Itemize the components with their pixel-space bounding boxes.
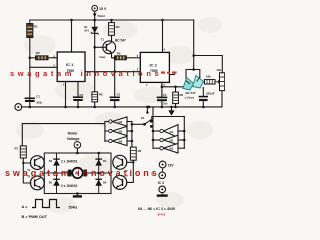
transistor T1 (103, 41, 116, 54)
paper mottle (16, 17, 222, 213)
wire left vertical bus (29, 38, 31, 107)
wire top supply rail (30, 19, 194, 21)
wire N2 in stub (178, 139, 184, 141)
wire switch throw riser (152, 117, 185, 122)
svg-text:IC 1: IC 1 (66, 62, 74, 67)
current arrow 50mA (93, 13, 97, 17)
wire N3 out stub (153, 147, 160, 149)
svg-text:50Hz: 50Hz (69, 206, 78, 210)
bridge frame (44, 153, 111, 194)
wire T1 base stub (95, 46, 107, 48)
wire switch feed (132, 123, 145, 125)
wire N4-N6 output bus (104, 122, 106, 142)
wire IC1 pin2 lead (30, 66, 57, 68)
svg-text:10k: 10k (206, 75, 211, 79)
svg-text:100u: 100u (36, 101, 42, 105)
transistor T3 (113, 175, 127, 189)
wire R6 bottom lead (94, 102, 96, 107)
wire pot bottom lead (221, 91, 223, 107)
wire IC2 pin5 lead (161, 82, 163, 97)
svg-text:10k: 10k (216, 68, 221, 72)
svg-text:Imax: Imax (100, 55, 106, 59)
diode D4 top-right (95, 159, 102, 166)
svg-text:15V: 15V (168, 164, 175, 168)
diode D3 top-left (53, 159, 60, 166)
svg-text:Voltage: Voltage (67, 137, 80, 141)
svg-text:C1: C1 (36, 95, 40, 99)
transistor pair BC547 highlighted (183, 76, 204, 91)
resistor R10 (20, 146, 26, 158)
svg-text:2 x 1N4001: 2 x 1N4001 (61, 160, 78, 164)
svg-text:S1: S1 (141, 116, 145, 120)
wire N1 out stub (153, 130, 160, 132)
inverter N1 (160, 125, 178, 138)
op-amp IC1 box (57, 52, 85, 82)
wire switch gnd stub (146, 107, 148, 112)
wire left base drive (23, 158, 31, 183)
inverter N4 (109, 117, 127, 126)
resistor R8 (173, 92, 179, 104)
svg-text:D4: D4 (103, 159, 107, 163)
resistor 10k (204, 80, 215, 84)
svg-text:C4: C4 (163, 93, 167, 97)
wire N4 in stub (127, 121, 132, 123)
wire IC2 out stub (170, 74, 175, 76)
svg-text:R4: R4 (116, 25, 120, 29)
wire R9 to bases (127, 160, 133, 182)
potentiometer 10k (220, 73, 225, 91)
inverter N6 (109, 136, 127, 145)
wire N3 in stub (178, 147, 184, 149)
switch S1 arm (145, 120, 152, 125)
wire R8 stubs (175, 87, 177, 107)
svg-text:BC 547: BC 547 (186, 91, 197, 95)
capacitor C2 (73, 97, 83, 100)
wire motor row (44, 172, 111, 174)
supply terminal 15V right (159, 161, 166, 172)
wire collector loop (186, 70, 200, 81)
svg-text:C3: C3 (117, 93, 121, 97)
earth symbol (168, 110, 174, 115)
wire right feed corner (193, 20, 195, 70)
transistor T5 (30, 176, 44, 190)
inverter N3 (160, 143, 178, 153)
inverter N2 (160, 135, 178, 145)
motor M (68, 168, 87, 178)
wire N2 out stub (153, 139, 160, 141)
wire R2 left lead (30, 57, 36, 59)
wire N5 in stub (127, 130, 132, 132)
wire R5 right lead (126, 57, 140, 59)
svg-text:N6: N6 (119, 140, 123, 144)
svg-text:15 V: 15 V (99, 7, 107, 11)
wire C4 ground lead (161, 101, 163, 107)
zener diode D1 (91, 27, 98, 35)
resistor R2 (36, 56, 49, 60)
svg-text:N1: N1 (170, 130, 174, 134)
IC3 vdd terminal (159, 172, 166, 179)
watermark band 1 tail dashes (161, 72, 177, 74)
svg-text:R7: R7 (15, 147, 19, 151)
wire N4 out stub (105, 121, 109, 123)
wire pot top feed (194, 56, 223, 73)
svg-text:220uF: 220uF (206, 92, 215, 96)
svg-text:T1: T1 (101, 38, 105, 42)
wire timing node vertical (114, 59, 116, 96)
capacitor C4 (157, 97, 168, 100)
wire N4-N6 input bus (131, 122, 133, 148)
svg-text:BC 547: BC 547 (115, 39, 126, 43)
wire right diode column (98, 153, 100, 194)
svg-text:50mA: 50mA (98, 14, 106, 18)
resistor R4 (109, 23, 115, 36)
pot wiper arrow (215, 80, 221, 84)
wire left driver feed (22, 124, 105, 146)
svg-text:R1: R1 (34, 25, 38, 29)
wire T1 emitter lead (112, 53, 115, 58)
bridge ground (73, 194, 82, 198)
svg-text:R6: R6 (99, 92, 103, 96)
svg-text:N5: N5 (119, 130, 123, 134)
svg-text:N4: N4 (119, 120, 123, 124)
transistor T2 (113, 155, 127, 169)
wire N6 in stub (127, 140, 132, 142)
left terminal (15, 104, 22, 111)
wire motor voltage lead (76, 148, 78, 153)
diode D6 bottom-right (95, 179, 102, 186)
inverter N5 (109, 126, 127, 135)
svg-text:x 2nos: x 2nos (185, 96, 195, 100)
svg-text:R2: R2 (36, 51, 40, 55)
capacitor C1 (25, 98, 35, 101)
svg-text:IC 2: IC 2 (150, 62, 158, 67)
svg-text:Motor: Motor (68, 132, 79, 136)
resistor R1 (27, 20, 33, 38)
svg-text:D5: D5 (49, 180, 53, 184)
supply terminal +15V (92, 5, 98, 11)
wire T1 collector lead (111, 35, 113, 41)
node dots (22, 19, 205, 195)
IC3 vss terminal (159, 186, 166, 194)
transistor T4 (30, 156, 44, 170)
wire IC1 gnd pin (65, 82, 67, 107)
wire N5 out stub (105, 130, 109, 132)
svg-text:N3: N3 (170, 147, 174, 151)
capacitor 220uF (199, 97, 208, 100)
wire R4 top stub (111, 20, 113, 23)
svg-text:D3: D3 (49, 159, 53, 163)
wire N6 out stub (105, 140, 109, 142)
wire ground rail (22, 106, 222, 108)
svg-text:N1 ... N6 = IC 3 = 4049: N1 ... N6 = IC 3 = 4049 (138, 207, 175, 211)
wire IC1 cap pin (77, 82, 79, 107)
svg-text:R9: R9 (138, 149, 142, 153)
wire control line (162, 86, 184, 88)
wire left diode column (56, 153, 58, 194)
svg-text:IC 3: IC 3 (158, 181, 164, 185)
wire N1 in stub (178, 130, 184, 132)
svg-text:B = PWM OUT: B = PWM OUT (22, 215, 48, 219)
wire earth stub (171, 107, 173, 111)
wire 15V feed (94, 11, 96, 26)
resistor R6 (92, 92, 98, 102)
svg-text:D6: D6 (103, 180, 107, 184)
svg-text:9V1: 9V1 (84, 28, 89, 32)
motor voltage terminal (74, 142, 81, 149)
wire IC1 out to IC2 (85, 71, 140, 73)
svg-text:N2: N2 (170, 139, 174, 143)
capacitor C3 (110, 97, 120, 100)
wire N1-N3 input bus (183, 117, 185, 149)
resistor R5 (115, 56, 127, 60)
svg-text:2 x 1N4001: 2 x 1N4001 (61, 184, 78, 188)
wire zener to divider (94, 32, 96, 92)
wire 10k leads (200, 81, 204, 83)
wire R2 right lead (48, 57, 57, 59)
wire C3 ground lead (114, 101, 116, 107)
wire N1-N3 output bus (152, 107, 154, 148)
svg-text:10n: 10n (163, 101, 168, 105)
wire 220uF leads (202, 88, 204, 107)
diode D5 bottom-left (53, 179, 60, 186)
wire IC1 Vcc drop (71, 20, 73, 52)
resistor R9 (130, 147, 136, 160)
IC3 ground bar (157, 194, 168, 196)
svg-text:A =: A = (22, 205, 29, 209)
svg-text:R8: R8 (180, 93, 184, 97)
svg-text:R5: R5 (117, 51, 121, 55)
svg-text:87402: 87402 (158, 213, 166, 217)
svg-text:C2: C2 (80, 93, 84, 97)
wire IC2 Vcc drop (162, 20, 164, 52)
op-amp IC2 box (140, 52, 169, 82)
